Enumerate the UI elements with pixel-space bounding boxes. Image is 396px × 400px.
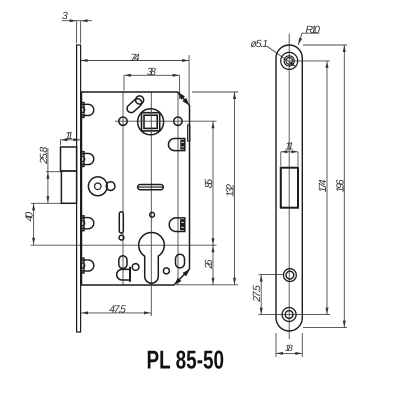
svg-text:ø5.1: ø5.1 bbox=[251, 39, 269, 50]
svg-text:R10: R10 bbox=[305, 25, 320, 36]
svg-text:27.5: 27.5 bbox=[252, 285, 263, 303]
svg-text:26: 26 bbox=[204, 259, 215, 269]
svg-text:PL 85-50: PL 85-50 bbox=[147, 347, 225, 375]
svg-text:25.8: 25.8 bbox=[39, 147, 50, 165]
svg-text:132: 132 bbox=[226, 184, 237, 197]
svg-text:38: 38 bbox=[147, 67, 156, 78]
svg-text:18: 18 bbox=[285, 343, 293, 353]
svg-text:85: 85 bbox=[204, 179, 215, 188]
svg-text:3: 3 bbox=[62, 11, 68, 22]
svg-text:196: 196 bbox=[335, 179, 346, 192]
svg-text:174: 174 bbox=[318, 179, 329, 192]
svg-text:74: 74 bbox=[131, 53, 140, 64]
svg-text:11: 11 bbox=[285, 142, 294, 153]
svg-text:47.5: 47.5 bbox=[109, 304, 126, 315]
svg-text:40: 40 bbox=[25, 212, 36, 222]
svg-text:11: 11 bbox=[65, 131, 73, 142]
